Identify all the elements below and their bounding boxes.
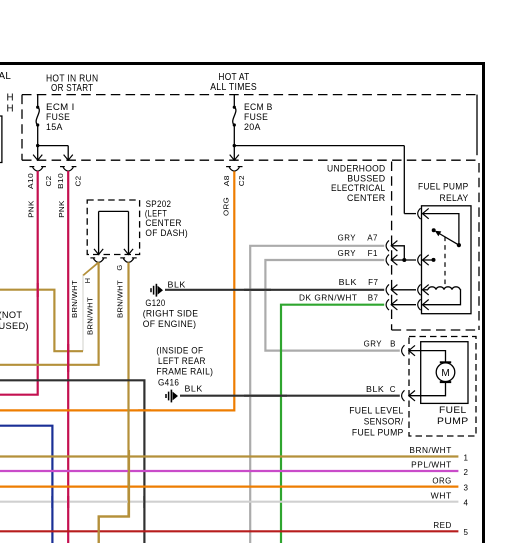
svg-text:PUMP: PUMP bbox=[437, 416, 469, 426]
svg-text:FUEL: FUEL bbox=[439, 405, 467, 415]
svg-text:OR START: OR START bbox=[51, 83, 93, 94]
relay coil bbox=[423, 287, 461, 305]
wire ORG row 3 bbox=[0, 486, 458, 488]
wire PNK B10 overlay at tan crossings bbox=[67, 344, 69, 372]
connector at UBEC B7 bbox=[386, 299, 397, 310]
wire GRY to A7 bbox=[250, 246, 384, 543]
wire PNK from A10 bbox=[0, 171, 38, 395]
svg-text:BRN/WHT: BRN/WHT bbox=[409, 446, 451, 455]
wire: motor to pump C bbox=[409, 382, 446, 396]
svg-text:G: G bbox=[115, 264, 124, 270]
wire BLK branch left of G416 bbox=[0, 380, 144, 543]
relay switch arm bbox=[432, 228, 459, 245]
label: C2 (A10) bbox=[44, 176, 53, 187]
ground G120 bbox=[151, 284, 163, 297]
label: pin number 4 bbox=[464, 499, 469, 508]
svg-text:F1: F1 bbox=[368, 249, 378, 258]
svg-text:BUSSED: BUSSED bbox=[347, 173, 385, 183]
wire BLUE (navy) lower left bbox=[0, 426, 52, 543]
connector at UBEC A7 bbox=[386, 240, 397, 251]
svg-text:RED: RED bbox=[433, 521, 451, 530]
label: FUEL PUMP RELAY bbox=[418, 182, 469, 203]
svg-text:CENTER: CENTER bbox=[347, 193, 386, 203]
svg-text:BLK: BLK bbox=[339, 278, 358, 287]
svg-text:GRY: GRY bbox=[364, 340, 383, 349]
svg-text:WHT: WHT bbox=[431, 491, 452, 500]
svg-text:BRN/WHT: BRN/WHT bbox=[86, 297, 95, 335]
label: BLK (G120) bbox=[168, 280, 187, 289]
svg-text:C2: C2 bbox=[44, 176, 53, 187]
svg-text:3: 3 bbox=[464, 483, 469, 492]
svg-text:SENSOR/: SENSOR/ bbox=[364, 416, 404, 426]
label: BLK (G416) bbox=[185, 384, 203, 393]
svg-text:AL: AL bbox=[0, 71, 11, 82]
svg-text:(NOT: (NOT bbox=[0, 310, 22, 320]
connector at UBEC F1 bbox=[386, 255, 397, 266]
wire BLUE overlay at WHT row bbox=[51, 496, 53, 508]
svg-text:BLK: BLK bbox=[185, 384, 203, 393]
left clipped box fragment bbox=[0, 116, 2, 163]
svg-text:PNK: PNK bbox=[57, 200, 66, 218]
connector relay pin (from fuse) bbox=[418, 208, 429, 219]
svg-text:OF ENGINE): OF ENGINE) bbox=[143, 319, 197, 329]
fuse ECM B 20A bbox=[230, 95, 239, 161]
label: G120 (RIGHT SIDE OF ENGINE) bbox=[143, 298, 199, 329]
junction dot fuse ECM I branch bbox=[36, 144, 39, 147]
svg-text:ECM I: ECM I bbox=[46, 102, 75, 112]
label: PPL/WHT (row 2) bbox=[411, 461, 452, 470]
svg-text:H: H bbox=[83, 278, 92, 284]
svg-text:FRAME RAIL): FRAME RAIL) bbox=[156, 367, 213, 377]
label: pin number 2 bbox=[464, 468, 469, 477]
label: C2 (A8) bbox=[237, 175, 246, 186]
connector relay pin B7 bbox=[418, 299, 429, 310]
svg-text:B7: B7 bbox=[368, 294, 379, 303]
label: B10 bbox=[56, 173, 65, 189]
svg-text:BRN/WHT: BRN/WHT bbox=[116, 280, 125, 318]
svg-text:UNDERHOOD: UNDERHOOD bbox=[327, 163, 386, 173]
wire BRN/WHT from SP202 left leg down bbox=[0, 262, 99, 365]
svg-text:15A: 15A bbox=[46, 122, 63, 132]
wire BLK from G416 to fuel pump C bbox=[180, 395, 400, 397]
label: FUEL PUMP (pump box) bbox=[437, 405, 469, 426]
label: BRN/WHT (row 1) bbox=[409, 446, 451, 455]
svg-text:A7: A7 bbox=[367, 233, 378, 242]
UBEC fuse block dashed box (hot feeds) bbox=[22, 95, 477, 161]
label: G bbox=[115, 264, 124, 270]
wire BLK from G120 to relay F7 bbox=[165, 289, 384, 291]
label: SP202 (LEFT CENTER OF DASH) bbox=[145, 199, 188, 238]
svg-text:G416: G416 bbox=[158, 377, 179, 387]
label: GRY F1 bbox=[338, 249, 378, 258]
svg-text:USED): USED) bbox=[0, 321, 29, 331]
wire PNK A10 overlay at tan crossing bbox=[37, 283, 39, 297]
wire PPL/WHT row 2 bbox=[0, 470, 458, 472]
svg-text:C: C bbox=[390, 385, 396, 394]
label: PNK (A10 wire) bbox=[27, 200, 36, 218]
svg-text:G120: G120 bbox=[145, 298, 165, 308]
label: DK GRN/WHT B7 bbox=[299, 294, 379, 303]
svg-text:ORG: ORG bbox=[432, 476, 451, 485]
label: pin number 5 bbox=[464, 528, 469, 537]
fuel pump inner box bbox=[421, 342, 468, 404]
wire BLK branch overlay at WHT row bbox=[143, 496, 145, 508]
label: ORG (A8 wire) bbox=[221, 197, 230, 216]
svg-text:PPL/WHT: PPL/WHT bbox=[411, 461, 452, 470]
wire: fuse ECM B branch to fuel pump relay bbox=[234, 146, 416, 214]
wire ORG overlay at BLK crossing bbox=[138, 409, 151, 411]
svg-text:ORG: ORG bbox=[221, 197, 230, 216]
wire BRN/WHT G from SP202 right leg bbox=[99, 262, 129, 543]
svg-text:GRY: GRY bbox=[338, 249, 357, 258]
label: ECM I FUSE 15A bbox=[46, 102, 75, 132]
svg-text:H: H bbox=[7, 104, 14, 115]
wire: B7 into relay bbox=[391, 304, 416, 306]
svg-text:C2: C2 bbox=[74, 176, 83, 187]
label: GRY A7 bbox=[338, 233, 378, 242]
svg-text:(INSIDE OF: (INSIDE OF bbox=[156, 345, 203, 355]
svg-text:FUSE: FUSE bbox=[46, 112, 70, 122]
junction dot A7/F1 link bbox=[402, 258, 406, 262]
splice SP202 dashed box bbox=[87, 200, 139, 255]
label: WHT (row 4) bbox=[431, 491, 452, 500]
label: pin number 3 bbox=[464, 483, 469, 492]
fuel pump relay dashed box bbox=[392, 163, 479, 330]
connector C2 pin A10 bbox=[30, 167, 46, 172]
svg-text:F7: F7 bbox=[368, 278, 378, 287]
underhood bussed electrical center dashed edge bbox=[391, 162, 393, 331]
label: A8 bbox=[222, 175, 231, 186]
label: truncated AL bbox=[0, 71, 11, 82]
wire PNK from B10 bbox=[67, 171, 69, 543]
wire PNK B10 overlay at WHT row bbox=[67, 496, 69, 508]
wire: pump B to motor bbox=[409, 351, 446, 362]
svg-text:ELECTRICAL: ELECTRICAL bbox=[331, 183, 386, 193]
wire ORG from A8 bbox=[0, 171, 234, 410]
label: UNDERHOOD BUSSED ELECTRICAL CENTER bbox=[327, 163, 386, 203]
svg-text:DK GRN/WHT: DK GRN/WHT bbox=[299, 294, 358, 303]
label: BRN/WHT (left) bbox=[70, 280, 79, 318]
fuse ECM I 15A bbox=[33, 95, 42, 161]
svg-text:20A: 20A bbox=[244, 122, 261, 132]
junction dot fuse ECM B branch bbox=[233, 144, 236, 147]
svg-text:(RIGHT SIDE: (RIGHT SIDE bbox=[143, 309, 199, 319]
connector at UBEC F7 bbox=[386, 284, 397, 295]
wire: relay F1 contact bbox=[423, 258, 436, 262]
svg-text:OF DASH): OF DASH) bbox=[145, 228, 188, 238]
svg-text:ECM B: ECM B bbox=[244, 102, 273, 112]
wire BRN/WHT G overlay (over rows) bbox=[99, 450, 129, 543]
label: A10 bbox=[26, 173, 35, 189]
svg-text:A10: A10 bbox=[26, 173, 35, 189]
wire: fuse ECM I branch to B10 bbox=[38, 146, 73, 161]
label: ORG (row 3) bbox=[432, 476, 451, 485]
label: FUEL LEVEL SENSOR/ FUEL PUMP bbox=[349, 406, 403, 438]
svg-text:2: 2 bbox=[464, 468, 469, 477]
label: BRN/WHT (right) bbox=[116, 280, 125, 318]
connector fuel pump pin C bbox=[402, 390, 415, 401]
svg-text:FUEL PUMP: FUEL PUMP bbox=[418, 182, 469, 192]
ground G416 bbox=[166, 390, 178, 403]
svg-text:BLK: BLK bbox=[168, 280, 187, 289]
label: (NOT USED) bbox=[0, 310, 29, 331]
svg-text:PNK: PNK bbox=[27, 200, 36, 218]
wire DK GRN/WHT to B7 bbox=[281, 305, 384, 543]
label: (INSIDE OF LEFT REAR FRAME RAIL) G416 bbox=[156, 345, 213, 387]
connector relay pin F7 bbox=[418, 284, 429, 295]
svg-text:FUSE: FUSE bbox=[244, 112, 268, 122]
svg-text:FUEL PUMP: FUEL PUMP bbox=[352, 428, 404, 438]
svg-text:ALL TIMES: ALL TIMES bbox=[210, 82, 257, 93]
svg-text:5: 5 bbox=[464, 528, 469, 537]
svg-text:LEFT REAR: LEFT REAR bbox=[158, 356, 206, 366]
wire: F1 into relay bbox=[391, 259, 416, 261]
svg-text:B10: B10 bbox=[56, 173, 65, 189]
label: H bbox=[83, 278, 92, 284]
connector relay pin F1 bbox=[418, 255, 429, 266]
motor M1 bbox=[436, 362, 455, 382]
svg-text:(LEFT: (LEFT bbox=[145, 209, 167, 219]
splice SP202 bus bbox=[94, 211, 133, 254]
label: BLK C bbox=[366, 385, 396, 394]
wire: relay switch feed bbox=[423, 214, 459, 246]
label: RED (row 5) bbox=[433, 521, 451, 530]
svg-text:1: 1 bbox=[464, 453, 469, 462]
connector fuel pump pin B bbox=[402, 345, 415, 356]
svg-text:BLK: BLK bbox=[366, 385, 385, 394]
svg-text:SP202: SP202 bbox=[146, 199, 172, 209]
label: BLK F7 bbox=[339, 278, 379, 287]
wire BLK F7 overlay at gray crossings bbox=[244, 289, 271, 291]
relay U1 box bbox=[422, 206, 472, 314]
wire BLK C overlay at gray/green crossings bbox=[244, 395, 287, 397]
connector C2 pin A8 bbox=[226, 167, 242, 172]
wire BRN/WHT H (tan/white) from SP202 left leg bbox=[0, 262, 99, 351]
svg-text:CENTER: CENTER bbox=[145, 218, 181, 228]
label: C2 (B10) bbox=[74, 176, 83, 187]
fuel level sensor / fuel pump dashed box bbox=[409, 337, 476, 437]
svg-text:C2: C2 bbox=[237, 175, 246, 186]
connector at SP202 right leg bbox=[120, 258, 136, 263]
svg-text:FUEL LEVEL: FUEL LEVEL bbox=[349, 406, 403, 416]
wire GRY to F1 and fuel pump B bbox=[265, 260, 399, 351]
label: HOT IN RUN OR START bbox=[46, 74, 98, 95]
wire BRN/WHT row 1 bbox=[0, 455, 458, 457]
label: BRN/WHT (middle) bbox=[86, 297, 95, 335]
svg-text:GRY: GRY bbox=[338, 233, 357, 242]
svg-text:H: H bbox=[7, 93, 14, 104]
connector C2 pin B10 bbox=[60, 167, 76, 172]
connector at SP202 left leg bbox=[90, 258, 106, 263]
label: ECM B FUSE 20A bbox=[244, 102, 273, 132]
label: pin number 1 bbox=[464, 453, 469, 462]
svg-text:A8: A8 bbox=[222, 175, 231, 186]
wire: F7 into relay bbox=[391, 289, 416, 291]
wire WHT row 4 bbox=[0, 501, 458, 503]
relay actuation dashed link bbox=[444, 237, 446, 288]
svg-text:RELAY: RELAY bbox=[440, 193, 469, 203]
label: HOT AT ALL TIMES bbox=[210, 72, 257, 93]
label: GRY B bbox=[364, 340, 396, 349]
svg-text:BRN/WHT: BRN/WHT bbox=[70, 280, 79, 318]
wire: A7 link into relay bbox=[391, 246, 404, 260]
svg-text:M: M bbox=[441, 368, 449, 379]
svg-text:4: 4 bbox=[464, 499, 469, 508]
label: PNK (B10 wire) bbox=[57, 200, 66, 218]
label: truncated H H bbox=[7, 93, 14, 115]
svg-text:B: B bbox=[390, 340, 396, 349]
relay switch contact dot bbox=[457, 243, 461, 247]
wire RED row 5 bbox=[0, 530, 458, 532]
